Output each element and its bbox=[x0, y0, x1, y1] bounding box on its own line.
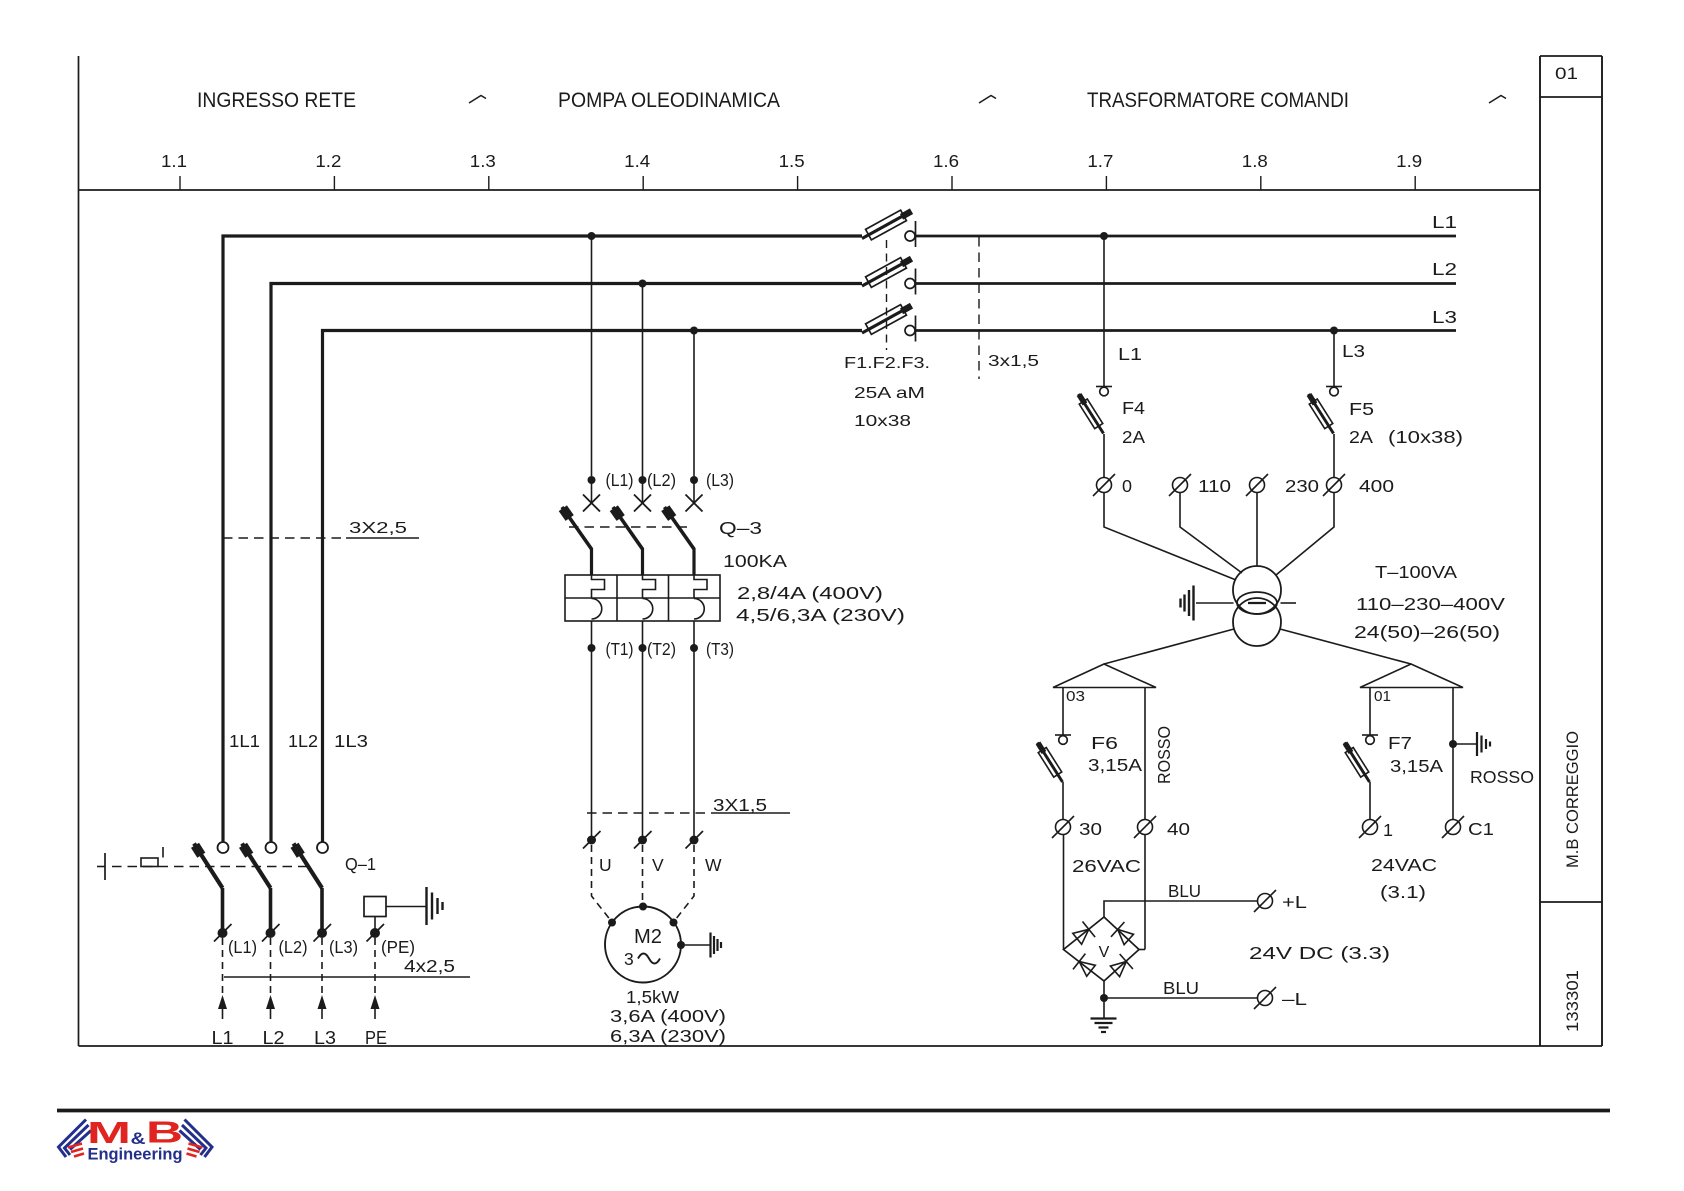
svg-text:L1: L1 bbox=[1118, 344, 1142, 364]
svg-text:BLU: BLU bbox=[1163, 978, 1199, 998]
svg-text:3x1,5: 3x1,5 bbox=[988, 353, 1039, 370]
svg-text:(L2): (L2) bbox=[647, 470, 676, 490]
svg-text:230: 230 bbox=[1285, 476, 1319, 496]
svg-text:26VAC: 26VAC bbox=[1072, 856, 1141, 876]
svg-text:3X2,5: 3X2,5 bbox=[349, 520, 407, 537]
svg-text:1L2: 1L2 bbox=[288, 731, 318, 751]
svg-text:1.4: 1.4 bbox=[624, 151, 650, 171]
svg-text:30: 30 bbox=[1079, 819, 1102, 839]
svg-text:40: 40 bbox=[1167, 819, 1190, 839]
svg-text:1.5: 1.5 bbox=[779, 151, 805, 171]
svg-text:2A: 2A bbox=[1122, 427, 1145, 447]
svg-text:01: 01 bbox=[1374, 688, 1391, 705]
svg-text:F5: F5 bbox=[1349, 399, 1374, 419]
svg-text:133301: 133301 bbox=[1563, 970, 1582, 1032]
svg-text:L3: L3 bbox=[1342, 341, 1365, 361]
svg-text:F1.F2.F3.: F1.F2.F3. bbox=[844, 355, 930, 372]
svg-text:M2: M2 bbox=[634, 926, 662, 948]
svg-text:24(50)–26(50): 24(50)–26(50) bbox=[1354, 622, 1500, 642]
svg-text:(L1): (L1) bbox=[228, 937, 257, 957]
svg-text:(PE): (PE) bbox=[381, 937, 415, 957]
svg-text:(T3): (T3) bbox=[706, 639, 734, 659]
svg-text:4x2,5: 4x2,5 bbox=[404, 956, 455, 976]
svg-text:3,6A (400V): 3,6A (400V) bbox=[610, 1006, 726, 1026]
svg-text:100KA: 100KA bbox=[723, 551, 787, 571]
svg-text:(L3): (L3) bbox=[706, 470, 734, 490]
svg-text:ROSSO: ROSSO bbox=[1154, 726, 1174, 784]
svg-text:W: W bbox=[705, 855, 722, 875]
svg-text:–L: –L bbox=[1282, 989, 1307, 1009]
svg-text:110–230–400V: 110–230–400V bbox=[1356, 594, 1505, 614]
svg-text:24V DC (3.3): 24V DC (3.3) bbox=[1249, 943, 1390, 963]
svg-text:3,15A: 3,15A bbox=[1390, 756, 1443, 776]
svg-text:1,5kW: 1,5kW bbox=[626, 987, 680, 1007]
svg-text:110: 110 bbox=[1198, 476, 1231, 496]
svg-text:C1: C1 bbox=[1468, 819, 1494, 839]
svg-text:1.8: 1.8 bbox=[1242, 151, 1268, 171]
svg-text:3: 3 bbox=[624, 949, 634, 969]
svg-text:TRASFORMATORE COMANDI: TRASFORMATORE COMANDI bbox=[1087, 89, 1349, 112]
svg-text:2,8/4A (400V): 2,8/4A (400V) bbox=[737, 583, 883, 603]
svg-text:1.9: 1.9 bbox=[1396, 151, 1422, 171]
svg-text:L1: L1 bbox=[1432, 212, 1457, 232]
svg-text:ROSSO: ROSSO bbox=[1470, 767, 1534, 787]
svg-text:F4: F4 bbox=[1122, 398, 1145, 418]
svg-text:6,3A (230V): 6,3A (230V) bbox=[610, 1026, 726, 1046]
svg-text:24VAC: 24VAC bbox=[1371, 855, 1437, 875]
svg-text:Q–1: Q–1 bbox=[345, 854, 376, 874]
svg-text:V: V bbox=[1099, 944, 1110, 961]
svg-text:10x38: 10x38 bbox=[854, 413, 911, 430]
svg-text:(T1): (T1) bbox=[606, 639, 634, 659]
svg-text:0: 0 bbox=[1122, 476, 1132, 496]
svg-text:Engineering: Engineering bbox=[88, 1145, 183, 1164]
svg-text:1: 1 bbox=[1383, 820, 1393, 840]
svg-text:4,5/6,3A (230V): 4,5/6,3A (230V) bbox=[736, 605, 905, 625]
svg-text:(10x38): (10x38) bbox=[1388, 427, 1463, 447]
svg-text:U: U bbox=[599, 855, 612, 875]
svg-text:1.6: 1.6 bbox=[933, 151, 959, 171]
svg-text:(3.1): (3.1) bbox=[1380, 882, 1426, 902]
svg-text:1L1: 1L1 bbox=[229, 731, 260, 751]
svg-text:1.3: 1.3 bbox=[470, 151, 496, 171]
svg-text:(L2): (L2) bbox=[279, 937, 308, 957]
svg-text:1.7: 1.7 bbox=[1087, 151, 1113, 171]
svg-text:BLU: BLU bbox=[1168, 881, 1201, 901]
svg-text:1L3: 1L3 bbox=[334, 731, 368, 751]
svg-text:03: 03 bbox=[1066, 688, 1085, 705]
svg-text:L2: L2 bbox=[263, 1028, 285, 1048]
svg-text:(L1): (L1) bbox=[606, 470, 634, 490]
svg-text:L1: L1 bbox=[212, 1028, 234, 1048]
svg-text:INGRESSO RETE: INGRESSO RETE bbox=[197, 89, 356, 112]
svg-text:Q–3: Q–3 bbox=[719, 518, 762, 538]
svg-text:400: 400 bbox=[1359, 476, 1394, 496]
svg-text:L3: L3 bbox=[1432, 307, 1457, 327]
svg-text:F6: F6 bbox=[1091, 733, 1118, 753]
svg-text:25A aM: 25A aM bbox=[854, 385, 925, 402]
svg-text:PE: PE bbox=[365, 1028, 387, 1048]
svg-text:(L3): (L3) bbox=[329, 937, 358, 957]
svg-text:2A: 2A bbox=[1349, 427, 1373, 447]
svg-text:POMPA OLEODINAMICA: POMPA OLEODINAMICA bbox=[558, 89, 780, 112]
svg-text:M.B CORREGGIO: M.B CORREGGIO bbox=[1563, 731, 1582, 868]
svg-text:3,15A: 3,15A bbox=[1088, 755, 1142, 775]
svg-text:(T2): (T2) bbox=[647, 639, 676, 659]
svg-text:1.2: 1.2 bbox=[315, 151, 341, 171]
svg-text:1.1: 1.1 bbox=[161, 151, 187, 171]
svg-text:+L: +L bbox=[1282, 892, 1307, 912]
svg-text:F7: F7 bbox=[1388, 733, 1412, 753]
svg-text:3X1,5: 3X1,5 bbox=[713, 795, 767, 815]
svg-text:V: V bbox=[652, 855, 664, 875]
svg-text:T–100VA: T–100VA bbox=[1375, 562, 1457, 582]
svg-text:L2: L2 bbox=[1432, 259, 1457, 279]
svg-text:L3: L3 bbox=[314, 1028, 336, 1048]
svg-text:01: 01 bbox=[1555, 65, 1578, 83]
